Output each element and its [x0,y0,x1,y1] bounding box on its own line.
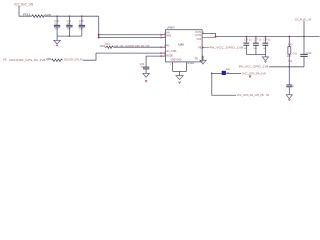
svg-text:OUT2: OUT2 [195,35,202,37]
pin arrow EN [161,36,163,38]
capacitor C37 [253,37,262,55]
junction output rail at C37 [255,36,257,38]
wire B to U20 pin EN [99,37,163,39]
svg-text:LP5907: LP5907 [167,28,176,30]
svg-text:R40: R40 [288,43,293,46]
ground (C40) [286,95,292,99]
svg-text:AO_CTRL: AO_CTRL [166,50,177,53]
ground (U20 GND) [176,76,183,80]
pin arrow FB [202,46,204,48]
wire lower-left net to corner [83,53,96,60]
svg-text:C41: C41 [293,53,298,56]
svg-text:SPGND: SPGND [187,63,195,65]
svg-text:OUT1: OUT1 [195,32,202,34]
svg-text:PD: PD [195,59,199,61]
capacitor C33 [79,16,85,36]
svg-text:U20: U20 [178,42,184,46]
pin arrow BYP [161,46,163,48]
pin arrow AO_CTRL [161,52,163,54]
wire main output rail [216,36,320,38]
pin stub VIN [163,34,166,36]
pin arrow MODE [161,55,163,57]
wire mid right feedback run [269,66,304,68]
capacitor C38 [263,37,272,57]
svg-text:RF_CLK26M_GPS_PA_1V8: RF_CLK26M_GPS_PA_1V8 [120,44,149,48]
svg-text:PA: PA [266,94,269,97]
svg-text:16V: 16V [263,48,267,50]
wire R40 top [288,37,290,47]
junction top bus at C33 [81,15,83,17]
wire to ferrite bead [212,72,222,74]
wire from VCC_BUC_1V8 down and right [19,6,32,16]
wire C40 to ground [288,87,290,95]
junction bottom bus at C32 [69,35,71,37]
svg-text:16V: 16V [253,48,257,50]
svg-text:3: 3 [164,46,165,48]
svg-text:R31: R31 [23,15,32,17]
svg-text:VIN: VIN [166,32,170,34]
capacitor C41 [300,54,307,56]
capacitor C40 [286,85,292,87]
svg-text:PD: PD [3,58,7,61]
ground tip marker (C40) [288,99,290,100]
svg-text:VCC_GPS_PA_1V8: VCC_GPS_PA_1V8 [242,71,266,75]
ground tip marker (output cap bank) [264,61,266,62]
ground (output cap bank) [262,57,268,61]
wire power rail corner down to U20 input [98,16,100,37]
svg-text:MCLK32K_GPS_PA: MCLK32K_GPS_PA [64,58,83,62]
wire C to U20 pin [114,46,163,48]
wire from ferrite bead to net label [226,72,241,74]
junction ferrite input node [211,73,213,75]
svg-text:2 7: 2 7 [170,64,174,66]
svg-text:VCC_GPS_PA_1V8_FB: VCC_GPS_PA_1V8_FB [237,93,264,97]
junction node VIN wire A [98,34,100,36]
wire OUT2 (red overlay) [202,37,215,39]
junction node wire B [98,37,100,39]
svg-text:MCLK32K_GPS_PA_1V8: MCLK32K_GPS_PA_1V8 [9,58,45,62]
junction output rail at R40 [288,36,290,38]
resistor R34 [52,59,63,62]
wire output cap bank bus [246,54,265,56]
capacitor C34 [143,67,149,69]
wire D to U20 pin [96,52,163,54]
ground (input capacitor bank) [54,36,60,46]
wire C41 top leg [303,37,305,55]
wire GND stem [179,71,181,75]
pin stub BYP [163,46,166,48]
ground tip marker (C34) [145,80,147,82]
ground (C34) [143,73,149,77]
svg-text:8: 8 [164,33,165,35]
svg-text:PD: PD [166,46,170,48]
junction output rail at C41 [303,36,305,38]
wire A to U20 pin VIN [99,34,163,36]
wire bottom bus of input capacitor bank [57,35,82,37]
svg-text:VOS: VOS [196,39,201,41]
svg-text:6: 6 [164,54,165,56]
pin stub OUT1 and wire to corner [202,34,216,37]
svg-text:GND GND: GND GND [171,59,182,61]
resistor R40 (vertical) [288,47,291,54]
junction feedback run at R40 [288,66,290,68]
op-amp U20 body [166,30,203,62]
svg-text:C38 1u: C38 1u [263,40,271,42]
svg-text:7: 7 [164,36,165,38]
svg-text:5: 5 [164,51,165,53]
svg-text:FB5: FB5 [226,69,231,71]
wire R40 bottom to feedback node [288,54,290,85]
capacitor C31 [54,16,60,36]
junction OUT corner [215,36,217,38]
wire GND bottom bus [173,70,187,72]
wire top bus [44,15,98,17]
pin arrow VIN [161,34,163,36]
junction top bus at C32 [69,15,71,17]
capacitor C32 [66,16,72,36]
ferrite bead FB1 [222,71,226,75]
svg-text:VCC_PA_PLL_1V8: VCC_PA_PLL_1V8 [295,17,312,21]
wire C left stub [105,46,107,48]
svg-text:33R: 33R [46,58,52,61]
svg-text:VIN2: VIN2 [166,35,172,37]
junction output rail at C38 [265,36,267,38]
junction top bus at C31 [56,15,58,17]
pin stub EN [163,37,166,39]
svg-text:1u: 1u [291,85,294,88]
svg-text:1.0uF: 1.0uF [306,52,313,55]
svg-text:MODE: MODE [166,56,173,58]
ground tip marker (U20 GND) [179,82,181,84]
pin stub AO_CTRL [163,52,166,54]
wire C41 bottom leg to feedback run [303,57,305,67]
wire FB stub [205,47,210,49]
junction output rail at C36 [246,36,248,38]
pin stub MODE [163,55,166,57]
capacitor C36 [243,37,252,55]
resistor R31 [32,15,45,18]
wire E from U20 pin to bypass capacitor [146,56,162,67]
pin stub PGND right [201,56,204,60]
svg-text:C37 1u: C37 1u [254,40,262,42]
svg-text:PA_VCC_GPIO_1V8: PA_VCC_GPIO_1V8 [210,45,244,49]
wire C34 to ground [145,69,147,73]
svg-text:PA_VCC_GPIO_1V8: PA_VCC_GPIO_1V8 [239,64,269,68]
svg-text:16V: 16V [244,48,248,50]
svg-text:FB: FB [198,47,201,49]
resistor R33 [106,46,113,48]
wire from VCC_PA_PLL_1V8 down [303,21,305,37]
pin GND bottom wires [173,62,187,72]
wire down from ferrite node to bottom run [212,73,236,95]
svg-text:VCC_BUC_1V8: VCC_BUC_1V8 [14,2,33,6]
ground (PGND) [200,60,206,64]
wire stub below VCC_GPS label [249,75,251,77]
svg-text:C36 1u: C36 1u [244,40,252,42]
